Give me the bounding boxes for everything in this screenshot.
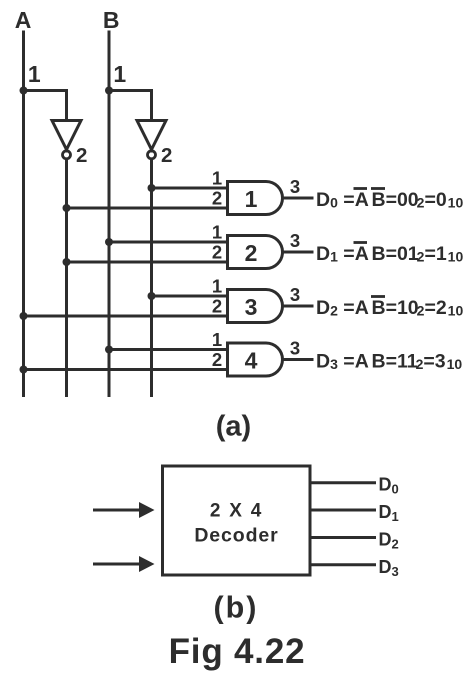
svg-text:3: 3 [290,284,300,305]
junction B to gate2 [105,238,113,246]
wire Abar vertical [65,158,68,397]
wire Abar to gate1 pin2 [67,207,228,210]
node D2 output equation [316,297,463,320]
input arrow 2 [93,556,155,572]
svg-text:2: 2 [212,349,222,370]
wire D0 output [312,481,377,484]
junction B to inverter [105,87,113,95]
wire D1 output [312,509,377,512]
wire Bbar to gate3 pin1 [152,295,228,298]
junction Bbar to gate3 [148,292,156,300]
wire D3 output [312,563,377,566]
inverter B triangle [137,121,166,150]
junction A to gate4 [20,366,28,374]
wire gate2 output [283,251,314,254]
AND gate 1 [228,182,283,215]
wire B junction to inverter B [109,91,152,122]
svg-text:D2 =A B=102=210: D2 =A B=102=210 [316,297,463,319]
wire B vertical [108,31,111,398]
input arrow 1 [93,502,155,518]
svg-text:2: 2 [212,296,222,317]
svg-text:1: 1 [245,186,258,212]
junction A to inverter [20,87,28,95]
wire gate4 output [283,358,314,361]
svg-text:1: 1 [212,276,222,297]
svg-text:2: 2 [212,188,222,209]
svg-text:1: 1 [212,168,222,189]
svg-text:3: 3 [290,176,300,197]
AND gate 3 [228,290,283,323]
wire A junction to inverter A [24,91,67,122]
inverter A bubble [63,151,71,159]
junction Abar to gate1 [63,204,71,212]
svg-text:2: 2 [212,242,222,263]
svg-text:4: 4 [245,348,258,374]
wire B to gate4 pin1 [109,348,228,351]
wire Abar to gate2 pin2 [67,261,228,264]
svg-text:2: 2 [245,240,258,266]
junction B to gate4 [105,346,113,354]
svg-text:3: 3 [245,294,258,320]
node D0 output equation [316,189,463,212]
svg-text:B: B [103,7,120,33]
wire Bbar vertical [150,158,153,397]
node D3 output equation [316,351,462,373]
AND gate 2 [228,236,283,269]
decoder block U1 [163,466,311,575]
svg-text:Decoder: Decoder [194,525,278,547]
inverter B bubble [148,151,156,159]
svg-text:D0 =A B=002=010: D0 =A B=002=010 [316,189,463,211]
node D1 output equation [316,243,463,266]
svg-text:Fig 4.22: Fig 4.22 [169,632,306,671]
svg-text:2: 2 [161,144,172,167]
svg-text:D3 =A B=112=310: D3 =A B=112=310 [316,351,462,373]
wire A to gate4 pin2 [24,368,228,371]
svg-text:2: 2 [76,144,87,167]
svg-text:1: 1 [28,61,41,87]
svg-text:(b): (b) [214,591,259,625]
svg-text:1: 1 [212,329,222,350]
svg-text:2 X 4: 2 X 4 [210,501,263,522]
wire D2 output [312,536,377,539]
wire B to gate2 pin1 [109,241,228,244]
svg-text:1: 1 [113,61,126,87]
svg-text:3: 3 [290,230,300,251]
wire gate3 output [283,305,314,308]
wire A vertical [22,31,25,398]
inverter A triangle [52,121,81,150]
svg-text:(a): (a) [216,411,251,443]
svg-text:D1 =A B=012=110: D1 =A B=012=110 [316,243,463,265]
svg-text:1: 1 [212,222,222,243]
wire A to gate3 pin2 [24,315,228,318]
junction Bbar to gate1 [148,184,156,192]
junction A to gate3 [20,312,28,320]
svg-text:3: 3 [290,338,300,359]
wire Bbar to gate1 pin1 [152,187,228,190]
wire gate1 output [283,197,314,200]
AND gate 4 [228,343,283,376]
junction Abar to gate2 [63,258,71,266]
svg-text:A: A [15,7,32,33]
